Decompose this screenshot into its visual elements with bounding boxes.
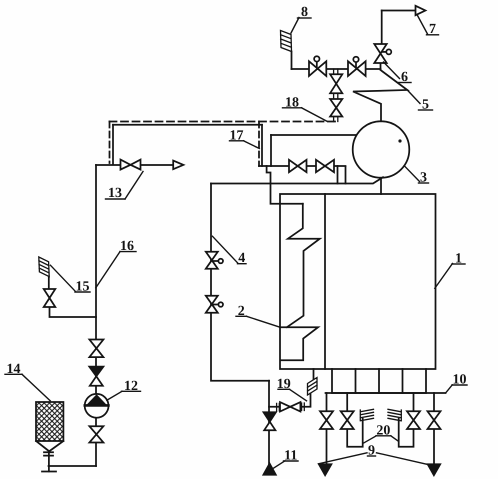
svg-text:3: 3 [420, 171, 427, 186]
svg-text:17: 17 [230, 128, 244, 143]
svg-text:8: 8 [301, 5, 308, 20]
svg-text:7: 7 [429, 22, 436, 37]
svg-text:14: 14 [7, 362, 21, 377]
svg-text:20: 20 [376, 423, 390, 438]
svg-text:12: 12 [124, 379, 138, 394]
svg-text:16: 16 [120, 239, 134, 254]
svg-text:2: 2 [238, 304, 245, 319]
svg-text:5: 5 [422, 98, 429, 113]
svg-text:19: 19 [277, 377, 291, 392]
svg-text:13: 13 [108, 186, 122, 201]
svg-text:10: 10 [453, 373, 467, 388]
svg-text:6: 6 [401, 70, 408, 85]
svg-text:15: 15 [76, 280, 90, 295]
svg-text:11: 11 [284, 449, 297, 464]
svg-text:18: 18 [285, 95, 299, 110]
svg-text:1: 1 [455, 252, 462, 267]
svg-text:4: 4 [238, 251, 245, 266]
svg-text:9: 9 [368, 444, 375, 459]
